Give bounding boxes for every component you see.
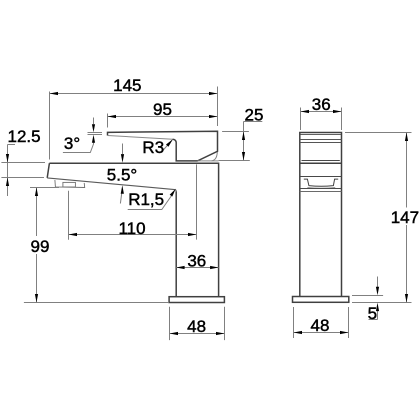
front view recess shape xyxy=(304,179,338,186)
svg-text:5: 5 xyxy=(368,304,377,323)
front view recess shadow line xyxy=(307,187,335,190)
radius R3 label xyxy=(162,140,172,151)
front view ring line xyxy=(300,191,342,193)
radius R1,5 label xyxy=(128,193,174,210)
dimension 48 (side view) xyxy=(170,307,225,340)
svg-text:48: 48 xyxy=(187,317,206,336)
dimension 99 xyxy=(24,188,169,303)
dimension 95 xyxy=(108,114,218,128)
svg-text:36: 36 xyxy=(312,95,331,114)
angle 3 annotation xyxy=(63,118,102,153)
lever underside edge xyxy=(108,136,173,140)
spout underside edge xyxy=(47,178,176,192)
svg-text:147: 147 xyxy=(391,208,419,227)
svg-text:48: 48 xyxy=(311,316,330,335)
dimension 48 (front view) xyxy=(294,307,349,338)
svg-text:110: 110 xyxy=(118,219,145,238)
dimension 110 xyxy=(69,164,197,239)
front view cap line 2 xyxy=(300,139,342,141)
front view column xyxy=(300,133,342,297)
angle 5.5 annotation xyxy=(120,144,122,204)
dimension 145 xyxy=(50,87,218,160)
front view cap bottom xyxy=(302,160,340,162)
spout tip edge and body left edge xyxy=(47,163,176,297)
spout top and body right edge xyxy=(49,163,218,297)
base plate (front view) xyxy=(293,297,349,303)
svg-text:25: 25 xyxy=(245,106,264,125)
svg-text:R3: R3 xyxy=(142,138,164,157)
svg-text:36: 36 xyxy=(187,251,206,270)
svg-text:99: 99 xyxy=(31,237,50,256)
dimension 36 (front view) xyxy=(301,108,342,131)
front view recess band bottom xyxy=(300,188,342,190)
svg-text:3°: 3° xyxy=(64,134,80,153)
lever (side view outline) xyxy=(108,131,218,161)
lever chamfer arc detail xyxy=(212,152,218,161)
svg-text:95: 95 xyxy=(153,100,172,119)
svg-text:5.5°: 5.5° xyxy=(107,165,137,184)
lever bottom face right segment xyxy=(198,160,219,162)
front view cap line 3 xyxy=(300,142,342,144)
svg-text:145: 145 xyxy=(113,76,141,95)
dimension 5 xyxy=(352,277,383,320)
front view body top xyxy=(300,162,342,164)
dimension 147 xyxy=(345,133,412,303)
dimension 12.5 xyxy=(1,145,45,197)
svg-text:R1,5: R1,5 xyxy=(128,190,164,209)
base plate (side view) xyxy=(169,297,224,303)
dimension 36 (side view) xyxy=(176,267,219,269)
aerator insert xyxy=(63,182,76,187)
dimension 25 xyxy=(219,122,263,161)
svg-text:12.5: 12.5 xyxy=(8,127,41,146)
aerator housing xyxy=(55,180,85,188)
front view recess band top xyxy=(300,176,342,178)
front view cap line 1 xyxy=(300,134,341,136)
